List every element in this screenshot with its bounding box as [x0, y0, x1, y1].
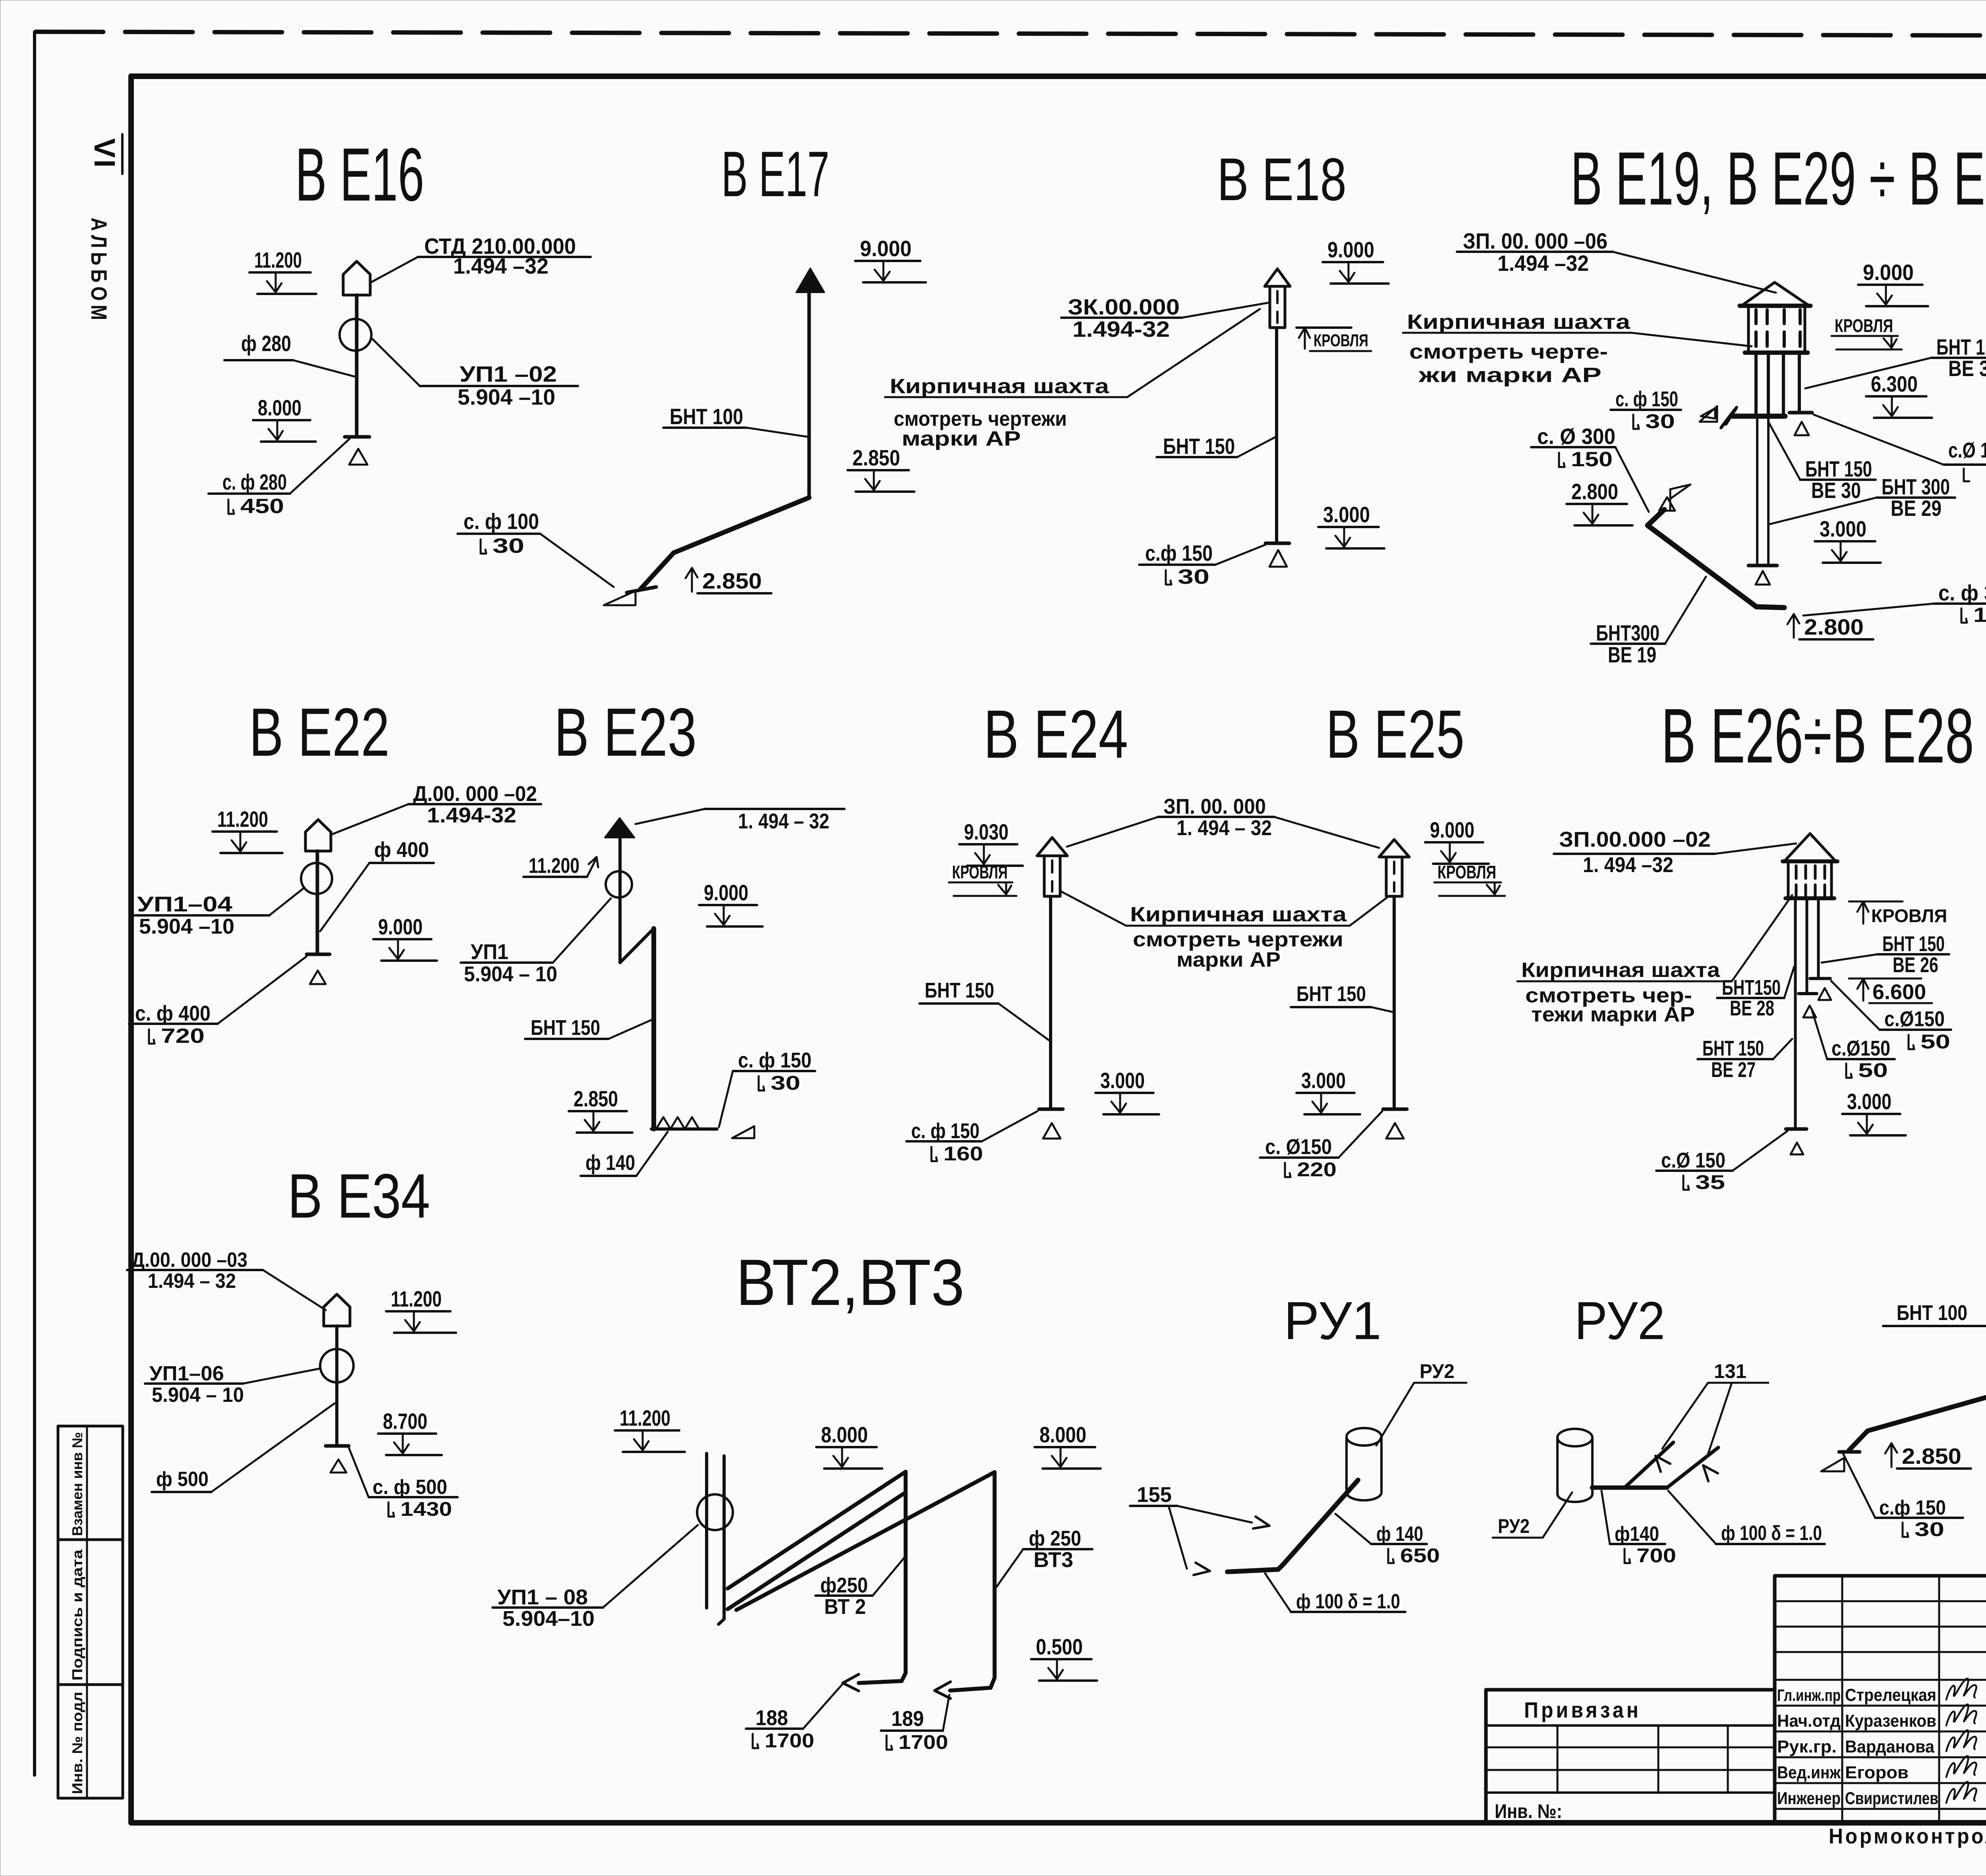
inclined duct BT2 lower	[728, 1492, 906, 1609]
svg-text:В Е22: В Е22	[249, 694, 390, 770]
svg-text:Егоров: Егоров	[1845, 1763, 1909, 1782]
svg-text:189: 189	[891, 1707, 924, 1731]
svg-text:В Е26÷В Е28: В Е26÷В Е28	[1661, 693, 1974, 779]
svg-text:ВЕ 28: ВЕ 28	[1730, 996, 1774, 1020]
pipe base tick BE16	[345, 435, 369, 439]
svg-text:6.300: 6.300	[1871, 371, 1918, 396]
vent cap BE34	[324, 1294, 350, 1326]
brick shaft symbol BE18	[1265, 269, 1290, 286]
vent riser pipe BE23	[618, 838, 622, 963]
svg-text:0.500: 0.500	[1036, 1634, 1083, 1659]
svg-text:УП1–06: УП1–06	[149, 1362, 224, 1385]
vent cap BE22	[305, 820, 331, 851]
branch duct РУ2 left	[1625, 1442, 1673, 1488]
svg-text:ф 100 δ = 1.0: ф 100 δ = 1.0	[1296, 1590, 1400, 1613]
svg-text:смотреть черте-: смотреть черте-	[1409, 340, 1608, 363]
svg-text:Кирпичная шахта: Кирпичная шахта	[1521, 959, 1720, 982]
svg-text:с.ф 150: с.ф 150	[1145, 540, 1213, 566]
svg-text:РУ1: РУ1	[1284, 1291, 1381, 1351]
svg-text:В Е24: В Е24	[983, 696, 1128, 772]
ground triangle BE17	[604, 591, 636, 605]
svg-text:9.030: 9.030	[964, 819, 1008, 844]
svg-text:1. 494 – 32: 1. 494 – 32	[738, 809, 829, 833]
svg-text:50: 50	[1920, 1031, 1950, 1053]
drop duct BT2	[904, 1472, 908, 1673]
svg-text:КРОВЛЯ: КРОВЛЯ	[1314, 331, 1368, 350]
svg-text:1.494-32: 1.494-32	[427, 803, 516, 827]
svg-text:тежи марки АР: тежи марки АР	[1531, 1003, 1695, 1026]
svg-text:ЗК.00.000: ЗК.00.000	[1068, 294, 1180, 319]
svg-text:Вед.инж: Вед.инж	[1777, 1763, 1841, 1782]
svg-text:720: 720	[161, 1025, 205, 1048]
svg-text:КРОВЛЯ: КРОВЛЯ	[1835, 315, 1893, 336]
svg-text:с. ф 100: с. ф 100	[464, 509, 539, 534]
pipe base tick BE24	[1039, 1108, 1063, 1111]
svg-text:1. 494 – 32: 1. 494 – 32	[1177, 816, 1272, 840]
svg-text:ф140: ф140	[1615, 1523, 1659, 1546]
svg-text:БНТ 150: БНТ 150	[925, 979, 994, 1002]
svg-text:смотреть чертежи: смотреть чертежи	[1133, 928, 1343, 951]
bottom horizontal duct BE19	[1732, 414, 1785, 419]
svg-text:8.000: 8.000	[821, 1422, 868, 1447]
pipe base tick BE18	[1265, 542, 1289, 545]
elevation mark up 2.850 (BE17 bottom)	[691, 569, 693, 592]
brick shaft roof BE19	[1743, 282, 1808, 305]
svg-text:КРОВЛЯ: КРОВЛЯ	[952, 862, 1008, 882]
svg-text:11.200: 11.200	[620, 1405, 670, 1430]
svg-text:Рук.гр.: Рук.гр.	[1777, 1737, 1837, 1756]
svg-text:ф 400: ф 400	[374, 838, 429, 862]
svg-text:8.000: 8.000	[1039, 1422, 1086, 1447]
svg-text:ВЕ 19: ВЕ 19	[1608, 642, 1656, 667]
svg-text:1.494 –32: 1.494 –32	[1497, 251, 1589, 276]
svg-text:с.Ø150: с.Ø150	[1884, 1007, 1945, 1031]
svg-text:2.850: 2.850	[852, 445, 900, 470]
svg-text:Инв. № подл: Инв. № подл	[69, 1692, 85, 1794]
svg-text:с. ф 400: с. ф 400	[135, 1002, 211, 1025]
twin riser pipes BT2	[705, 1453, 708, 1608]
vent riser pipe BE17	[808, 292, 811, 498]
svg-text:БНТ 150: БНТ 150	[1163, 434, 1235, 459]
svg-text:30: 30	[1645, 410, 1675, 432]
svg-text:9.000: 9.000	[378, 914, 423, 939]
svg-text:3.000: 3.000	[1100, 1068, 1145, 1093]
leg tick BE27	[1799, 992, 1817, 995]
shaft legs BE19	[1754, 353, 1758, 416]
svg-text:РУ2: РУ2	[1420, 1360, 1455, 1382]
roof flag 6.600 (BE26)	[1849, 978, 1921, 980]
svg-text:1.494 – 32: 1.494 – 32	[148, 1270, 236, 1293]
leg tick BE26	[1810, 977, 1830, 980]
svg-text:УП1: УП1	[471, 940, 508, 964]
svg-text:5.904 – 10: 5.904 – 10	[464, 962, 557, 986]
inclined duct РУ1	[1227, 1480, 1358, 1572]
svg-text:В Е25: В Е25	[1326, 696, 1464, 772]
duct outlet arrow BT2	[843, 1674, 859, 1683]
svg-text:с. Ø150: с. Ø150	[1265, 1135, 1332, 1159]
svg-text:БНТ300: БНТ300	[1596, 620, 1660, 645]
svg-text:9.000: 9.000	[1327, 237, 1374, 262]
cyclone cylinder РУ1	[1347, 1428, 1381, 1446]
svg-text:2.850: 2.850	[1902, 1444, 1961, 1469]
svg-text:ЗП. 00. 000 –06: ЗП. 00. 000 –06	[1463, 228, 1607, 253]
svg-text:Взамен инв №: Взамен инв №	[69, 1432, 85, 1536]
svg-text:Варданова: Варданова	[1845, 1737, 1934, 1756]
brick shaft symbol BE25	[1379, 840, 1409, 857]
brick shaft symbol BE24	[1037, 838, 1067, 856]
svg-text:с.ф 150: с.ф 150	[1879, 1496, 1946, 1519]
pipe base tick BE34	[326, 1444, 349, 1448]
svg-text:БНТ 150: БНТ 150	[1882, 932, 1945, 956]
svg-text:450: 450	[240, 495, 284, 518]
svg-text:УП1 – 08: УП1 – 08	[497, 1585, 588, 1609]
cyclone cylinder РУ2	[1557, 1429, 1592, 1446]
svg-text:Привязан: Привязан	[1524, 1697, 1641, 1722]
base triangle BE22	[310, 971, 326, 984]
svg-text:БНТ 150: БНТ 150	[1702, 1036, 1764, 1060]
svg-text:Инв. №:: Инв. №:	[1495, 1800, 1562, 1822]
svg-text:188: 188	[755, 1706, 788, 1730]
base triangle BE24	[1043, 1123, 1061, 1139]
svg-text:ВЕ 31: ВЕ 31	[1948, 356, 1986, 381]
svg-text:220: 220	[1297, 1158, 1337, 1181]
svg-text:Д.00. 000 –03: Д.00. 000 –03	[131, 1249, 247, 1272]
zigzag duct BE19	[1648, 510, 1784, 608]
svg-text:ЗП.00.000 –02: ЗП.00.000 –02	[1559, 828, 1711, 851]
svg-text:Свиристилев: Свиристилев	[1845, 1789, 1938, 1808]
svg-text:ВЕ 26: ВЕ 26	[1893, 953, 1938, 977]
svg-text:3.000: 3.000	[1847, 1089, 1891, 1114]
svg-text:Кирпичная шахта: Кирпичная шахта	[1407, 311, 1631, 334]
svg-text:30: 30	[1178, 566, 1209, 589]
margin box Взамен инв №	[58, 1426, 123, 1540]
svg-text:ф 250: ф 250	[1029, 1527, 1081, 1550]
svg-text:с. ф 500: с. ф 500	[373, 1476, 447, 1499]
svg-text:5.904 –10: 5.904 –10	[458, 384, 555, 409]
svg-text:В Е23: В Е23	[554, 694, 697, 770]
sheet outer border (dashed top edge)	[36, 32, 1986, 37]
duct end tick BE17	[627, 587, 656, 593]
svg-text:1430: 1430	[400, 1498, 452, 1520]
svg-text:БНТ 150: БНТ 150	[531, 1016, 600, 1040]
svg-text:650: 650	[1400, 1544, 1440, 1567]
svg-text:с. ф 150: с. ф 150	[1615, 387, 1678, 411]
elevation mark up 2.850 (BE33 lower)	[1891, 1444, 1893, 1467]
svg-text:с. ф 300: с. ф 300	[1938, 580, 1986, 605]
svg-text:Д.00. 000 –02: Д.00. 000 –02	[413, 782, 537, 806]
roof level mark КРОВЛЯ (BE18)	[1296, 326, 1351, 329]
drop duct BT3	[993, 1472, 997, 1678]
svg-text:ф 100 δ = 1.0: ф 100 δ = 1.0	[1721, 1522, 1822, 1545]
svg-text:В Е19, В Е29 ÷ В Е31: В Е19, В Е29 ÷ В Е31	[1571, 137, 1986, 221]
svg-text:ф 280: ф 280	[241, 331, 291, 356]
title block signature table grid	[1775, 1576, 1986, 1823]
svg-text:с. Ø 300: с. Ø 300	[1537, 424, 1615, 449]
brick shaft roof BE26	[1785, 834, 1835, 861]
svg-text:марки АР: марки АР	[902, 427, 1021, 450]
margin box Подпись и дата	[58, 1540, 123, 1685]
pipe base tick BE22	[307, 953, 330, 956]
svg-text:180: 180	[1973, 604, 1986, 627]
svg-text:ВТ3: ВТ3	[1034, 1548, 1073, 1572]
svg-text:с.Ø 150: с.Ø 150	[1948, 438, 1986, 462]
svg-text:ВТ 2: ВТ 2	[824, 1595, 866, 1619]
elevation mark up 2.800 (BE19 bottom)	[1793, 615, 1795, 638]
svg-text:В Е17: В Е17	[721, 138, 829, 210]
vent riser pipe BE25	[1393, 896, 1396, 1109]
svg-text:VI: VI	[88, 138, 121, 169]
svg-text:2.850: 2.850	[574, 1086, 618, 1111]
svg-text:1700: 1700	[898, 1731, 948, 1753]
svg-text:В Е34: В Е34	[288, 1161, 430, 1231]
svg-text:УП1–04: УП1–04	[137, 892, 232, 916]
svg-text:30: 30	[493, 535, 524, 558]
ground hatch BE23	[651, 1127, 717, 1131]
svg-text:ф250: ф250	[820, 1573, 868, 1597]
svg-text:150: 150	[1571, 448, 1613, 471]
horizontal duct РУ2	[1592, 1486, 1667, 1490]
svg-text:БНТ 150: БНТ 150	[1296, 982, 1366, 1006]
base triangle BE18	[1269, 550, 1287, 567]
svg-text:2.800: 2.800	[1804, 614, 1864, 639]
svg-text:КРОВЛЯ: КРОВЛЯ	[1871, 905, 1947, 926]
svg-text:УП1 –02: УП1 –02	[460, 361, 557, 386]
svg-text:6.600: 6.600	[1872, 980, 1926, 1004]
base triangle BE16	[349, 449, 367, 465]
svg-text:3.000: 3.000	[1301, 1068, 1346, 1093]
vent riser pipe BE34	[335, 1326, 338, 1446]
svg-text:1.494 –32: 1.494 –32	[453, 253, 549, 278]
svg-text:11.200: 11.200	[217, 807, 268, 832]
svg-text:с. ф 150: с. ф 150	[738, 1048, 811, 1072]
base triangle BE34	[330, 1459, 346, 1473]
svg-text:3.000: 3.000	[1323, 502, 1370, 527]
title block привязка table	[1486, 1690, 1775, 1823]
shaft legs BE26 BE27 BE28	[1794, 898, 1797, 1129]
svg-text:131: 131	[1714, 1360, 1746, 1382]
svg-text:160: 160	[943, 1143, 983, 1165]
svg-text:с. ф 280: с. ф 280	[222, 469, 287, 494]
brick shaft body BE26	[1787, 863, 1790, 898]
svg-text:АЛЬБОМ: АЛЬБОМ	[87, 218, 112, 324]
svg-text:КРОВЛЯ: КРОВЛЯ	[1437, 862, 1496, 882]
roof flag КРОВЛЯ (BE26)	[1849, 901, 1903, 903]
svg-text:5.904 –10: 5.904 –10	[139, 915, 234, 938]
svg-text:Стрелецкая: Стрелецкая	[1845, 1685, 1936, 1705]
offset jog BE23	[620, 928, 654, 963]
vent riser pipe BE22	[316, 851, 319, 954]
svg-text:ЗП. 00. 000: ЗП. 00. 000	[1163, 795, 1266, 818]
svg-text:700: 700	[1636, 1544, 1676, 1567]
svg-text:ВЕ 29: ВЕ 29	[1891, 496, 1942, 521]
sheet outer border left	[33, 32, 36, 1775]
svg-text:Гл.инж.пр: Гл.инж.пр	[1777, 1686, 1841, 1704]
svg-text:9.000: 9.000	[860, 236, 912, 261]
svg-text:Инженер: Инженер	[1777, 1789, 1841, 1808]
svg-text:8.700: 8.700	[383, 1409, 427, 1434]
svg-text:1700: 1700	[765, 1729, 814, 1752]
label 1.494-32 (BE23)	[705, 808, 844, 810]
vent riser pipe BE16	[355, 295, 359, 437]
svg-text:9.000: 9.000	[704, 880, 748, 905]
svg-text:В Е16: В Е16	[295, 133, 424, 217]
svg-text:Нач.отд: Нач.отд	[1777, 1711, 1841, 1731]
base triangle BE25	[1386, 1123, 1404, 1139]
duct elbow BE33	[1849, 1388, 1986, 1450]
vent cap BE16	[343, 261, 370, 295]
svg-text:с. ф 150: с. ф 150	[911, 1119, 979, 1143]
svg-text:В Е18: В Е18	[1217, 146, 1347, 213]
connection flag BE19	[1669, 489, 1671, 510]
duct outlet arrow BT3	[935, 1682, 950, 1691]
svg-text:1.494-32: 1.494-32	[1072, 317, 1170, 342]
right leg tick and triangle BE19	[1789, 411, 1812, 415]
svg-text:2.800: 2.800	[1571, 479, 1618, 504]
svg-text:11.200: 11.200	[529, 854, 580, 878]
svg-text:155: 155	[1137, 1483, 1172, 1507]
svg-text:ф 140: ф 140	[1376, 1523, 1423, 1546]
svg-text:9.000: 9.000	[1430, 817, 1474, 842]
svg-text:35: 35	[1695, 1171, 1725, 1193]
vent riser pipe BE24	[1049, 896, 1052, 1109]
ground triangle BE33	[1821, 1458, 1844, 1471]
svg-text:БНТ 100: БНТ 100	[1897, 1301, 1967, 1325]
svg-text:БНТ 100: БНТ 100	[670, 404, 743, 429]
svg-text:ф 140: ф 140	[585, 1151, 635, 1175]
svg-text:Кирпичная шахта: Кирпичная шахта	[1130, 903, 1347, 926]
branch duct РУ2 right	[1667, 1448, 1718, 1488]
svg-text:жи марки АР: жи марки АР	[1418, 364, 1602, 387]
svg-text:РУ2: РУ2	[1498, 1515, 1530, 1537]
damper circle BE16	[340, 319, 371, 351]
svg-text:ф 500: ф 500	[156, 1468, 209, 1491]
svg-text:2.850: 2.850	[702, 568, 762, 593]
double drop duct BE19	[1756, 419, 1758, 565]
svg-text:Подпись и дата: Подпись и дата	[69, 1549, 85, 1681]
duct end tick BE33	[1839, 1450, 1860, 1454]
svg-text:1. 494 –32: 1. 494 –32	[1583, 853, 1673, 877]
svg-text:8.000: 8.000	[258, 395, 301, 420]
svg-text:ВЕ 27: ВЕ 27	[1711, 1058, 1756, 1082]
leg tick BE28 base	[1786, 1127, 1806, 1131]
duct elbow BE17	[640, 498, 809, 589]
svg-text:Нормоконтролер: Нормоконтролер	[1829, 1824, 1986, 1848]
inclined duct BT2 upper	[728, 1472, 906, 1588]
vent riser pipe BE18	[1275, 328, 1278, 543]
svg-text:3.000: 3.000	[1820, 516, 1866, 541]
svg-text:Куразенков: Куразенков	[1845, 1711, 1936, 1731]
svg-text:30: 30	[1915, 1518, 1944, 1540]
svg-text:БНТ150: БНТ150	[1722, 976, 1781, 1000]
svg-text:ВЕ 30: ВЕ 30	[1811, 478, 1861, 503]
svg-text:11.200: 11.200	[391, 1286, 442, 1311]
damper circle BT2	[697, 1494, 733, 1530]
vent outlet triangle BE17	[796, 268, 824, 292]
svg-text:9.000: 9.000	[1863, 260, 1914, 285]
inclined duct BT3	[736, 1472, 995, 1610]
svg-text:с.Ø 150: с.Ø 150	[1661, 1148, 1725, 1172]
vent outlet triangle BE23	[605, 818, 634, 838]
svg-text:Кирпичная шахта: Кирпичная шахта	[890, 375, 1109, 398]
svg-text:ВТ2,ВТ3: ВТ2,ВТ3	[736, 1246, 964, 1319]
svg-text:11.200: 11.200	[254, 247, 302, 272]
svg-text:50: 50	[1858, 1059, 1888, 1081]
main duct BE23	[651, 928, 656, 1129]
svg-text:марки АР: марки АР	[1177, 948, 1281, 971]
damper circle BE23	[606, 871, 632, 897]
damper circle BE34	[320, 1349, 354, 1382]
pipe base tick BE25	[1383, 1108, 1407, 1111]
svg-text:РУ2: РУ2	[1575, 1291, 1665, 1351]
svg-text:с.Ø150: с.Ø150	[1831, 1036, 1890, 1060]
damper circle BE22	[301, 863, 332, 894]
svg-text:30: 30	[771, 1072, 800, 1094]
brick shaft body BE19	[1747, 307, 1750, 353]
svg-text:5.904 – 10: 5.904 – 10	[152, 1384, 244, 1407]
margin box Инв № подл	[58, 1685, 123, 1798]
svg-text:5.904–10: 5.904–10	[502, 1607, 595, 1631]
